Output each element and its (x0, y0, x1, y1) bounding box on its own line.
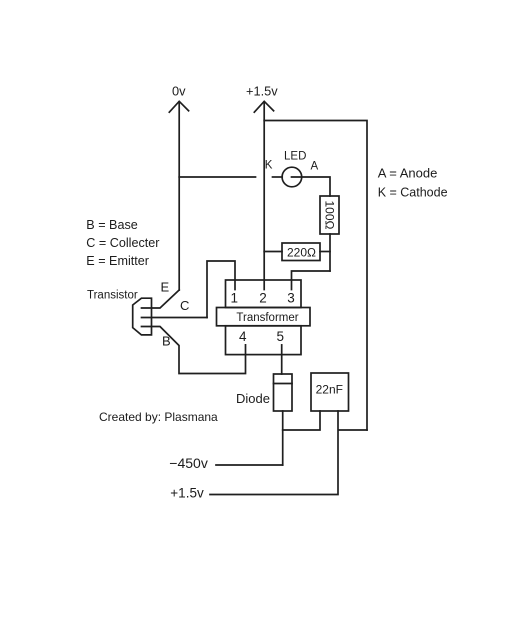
svg-text:E: E (161, 280, 170, 295)
power arrow 0v (169, 101, 188, 112)
svg-text:K = Cathode: K = Cathode (378, 186, 448, 200)
transistor base lead (142, 327, 246, 374)
svg-text:+1.5v: +1.5v (170, 486, 204, 501)
svg-text:Created by: Plasmana: Created by: Plasmana (99, 410, 218, 424)
diode cathode band (274, 383, 293, 385)
svg-text:5: 5 (276, 329, 284, 344)
wire: -450v lead (216, 464, 283, 466)
wire: +1.5v rail vertical (transformer pin 2 feed) (263, 102, 265, 290)
svg-text:Transistor: Transistor (87, 289, 138, 301)
wire: anode of LED to 100ohm resistor (292, 177, 331, 196)
svg-text:B: B (162, 334, 171, 349)
svg-text:LED: LED (284, 151, 306, 163)
resistor 220ohm box (282, 243, 320, 261)
wire: transformer pin 1 to collector (207, 261, 235, 318)
svg-text:0v: 0v (172, 84, 186, 99)
diode body box (274, 374, 293, 411)
wire: transformer pin 5 to diode (281, 345, 283, 374)
svg-text:1: 1 (231, 291, 239, 306)
svg-text:K: K (265, 159, 273, 171)
wire: K stub into LED (273, 176, 283, 178)
svg-text:220Ω: 220Ω (287, 246, 316, 260)
svg-text:4: 4 (239, 329, 247, 344)
transistor body outline (133, 298, 152, 335)
svg-text:+1.5v: +1.5v (246, 84, 278, 99)
svg-text:B = Base: B = Base (86, 218, 137, 232)
wire: 0v rail vertical (178, 102, 180, 290)
wire: 220ohm right lead (320, 251, 330, 253)
svg-text:E = Emitter: E = Emitter (86, 254, 149, 268)
power arrow +1.5v (254, 101, 273, 112)
svg-text:C: C (180, 298, 189, 313)
wire: right rail bottom horizontal (339, 429, 368, 431)
wire: top rail to right side (264, 121, 367, 431)
wire: diode output branch to 22nF (283, 411, 320, 430)
wire: K side of LED from 0v rail (179, 176, 255, 178)
capacitor 22nF box (311, 373, 349, 411)
svg-text:3: 3 (287, 291, 295, 306)
LED body circle (282, 167, 302, 187)
svg-text:Transformer: Transformer (236, 312, 298, 324)
svg-text:A = Anode: A = Anode (378, 165, 438, 180)
svg-text:22nF: 22nF (316, 382, 343, 396)
wire: 22nF right lead down to +1.5v bottom wire (210, 411, 338, 495)
wire: diode bottom to -450v (282, 411, 284, 465)
svg-text:2: 2 (259, 291, 267, 306)
svg-text:C = Collecter: C = Collecter (86, 236, 159, 250)
transformer lower box (pins 4 5) (226, 326, 302, 355)
transistor emitter lead (142, 290, 180, 308)
wire: branch to transformer pin 3 (292, 271, 331, 290)
transformer label box (217, 308, 311, 326)
wire: 100ohm to pin3 branch vertical (329, 234, 331, 271)
transistor collector lead (142, 317, 208, 319)
wire: 220ohm left lead to +1.5v rail (264, 251, 282, 253)
svg-text:A: A (311, 160, 319, 172)
svg-text:Diode: Diode (236, 391, 270, 406)
svg-text:−450v: −450v (169, 455, 208, 471)
svg-text:100Ω: 100Ω (323, 201, 337, 230)
transformer upper box (pins 1 2 3) (226, 280, 302, 308)
resistor 100ohm box (320, 196, 339, 234)
